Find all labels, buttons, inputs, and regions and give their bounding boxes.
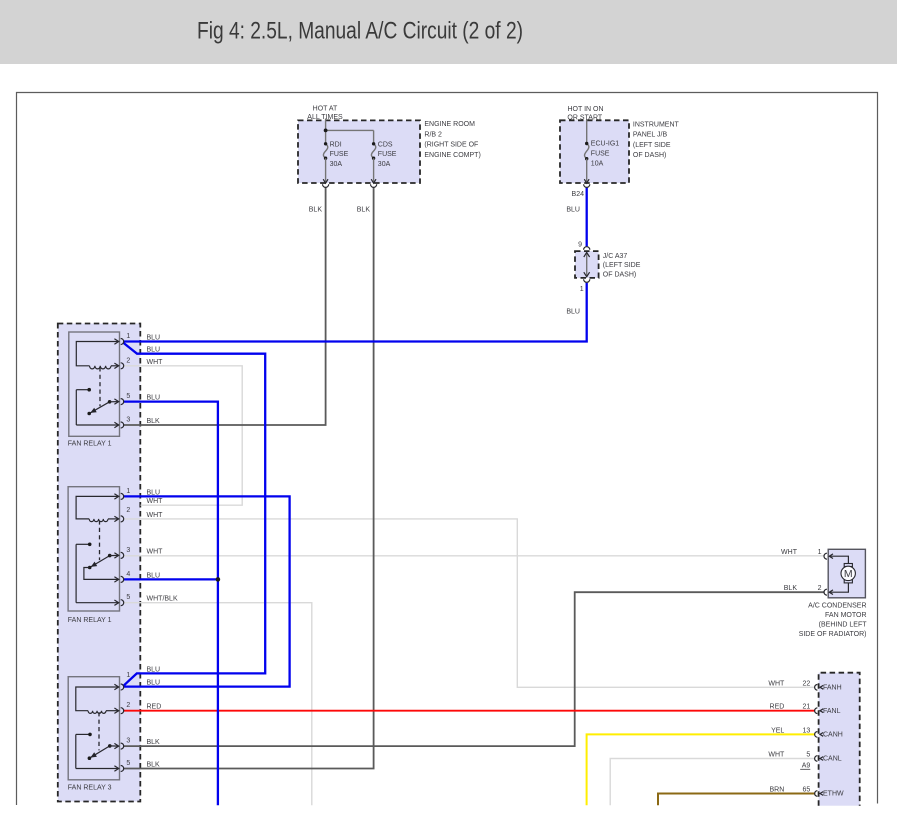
svg-text:ALL TIMES: ALL TIMES bbox=[307, 114, 343, 121]
svg-text:WHT: WHT bbox=[768, 752, 785, 759]
svg-text:OR START: OR START bbox=[567, 114, 602, 121]
svg-text:2: 2 bbox=[126, 507, 130, 514]
svg-text:1: 1 bbox=[126, 488, 130, 495]
svg-text:WHT: WHT bbox=[147, 512, 164, 519]
svg-text:SIDE OF RADIATOR): SIDE OF RADIATOR) bbox=[799, 631, 867, 638]
svg-text:OF DASH): OF DASH) bbox=[603, 272, 636, 279]
svg-text:3: 3 bbox=[126, 738, 130, 745]
svg-text:BLK: BLK bbox=[357, 206, 371, 213]
svg-text:1: 1 bbox=[126, 672, 130, 679]
svg-text:RDI: RDI bbox=[330, 141, 342, 148]
svg-text:5: 5 bbox=[126, 393, 130, 400]
svg-text:FUSE: FUSE bbox=[378, 151, 397, 158]
svg-text:22: 22 bbox=[803, 680, 811, 687]
svg-text:B24: B24 bbox=[572, 191, 585, 198]
svg-text:(LEFT SIDE: (LEFT SIDE bbox=[603, 262, 641, 269]
svg-text:BLK: BLK bbox=[147, 762, 161, 769]
svg-text:2: 2 bbox=[818, 585, 822, 592]
svg-text:WHT: WHT bbox=[147, 548, 164, 555]
svg-text:CDS: CDS bbox=[378, 141, 393, 148]
svg-text:10A: 10A bbox=[591, 161, 604, 168]
svg-text:Fig 4: 2.5L, Manual A/C Circui: Fig 4: 2.5L, Manual A/C Circuit (2 of 2) bbox=[197, 18, 523, 45]
svg-text:21: 21 bbox=[803, 704, 811, 711]
svg-text:BLK: BLK bbox=[147, 418, 161, 425]
svg-text:OF DASH): OF DASH) bbox=[633, 152, 666, 159]
svg-text:BLU: BLU bbox=[147, 395, 161, 402]
svg-text:ENGINE COMPT): ENGINE COMPT) bbox=[424, 152, 480, 159]
svg-text:FAN MOTOR: FAN MOTOR bbox=[825, 612, 866, 619]
svg-text:RED: RED bbox=[770, 704, 785, 711]
svg-text:5: 5 bbox=[126, 594, 130, 601]
svg-text:FANL: FANL bbox=[823, 708, 841, 715]
svg-text:1: 1 bbox=[580, 286, 584, 293]
svg-text:65: 65 bbox=[803, 787, 811, 794]
svg-text:A9: A9 bbox=[802, 763, 811, 770]
svg-text:BLU: BLU bbox=[147, 666, 161, 673]
svg-text:FAN RELAY 1: FAN RELAY 1 bbox=[68, 617, 112, 624]
svg-text:WHT: WHT bbox=[781, 549, 798, 556]
svg-text:ETHW: ETHW bbox=[823, 791, 844, 798]
svg-text:13: 13 bbox=[803, 727, 811, 734]
svg-text:BLU: BLU bbox=[147, 489, 161, 496]
svg-text:2: 2 bbox=[126, 357, 130, 364]
svg-text:CANH: CANH bbox=[823, 732, 843, 739]
svg-text:BLU: BLU bbox=[147, 680, 161, 687]
svg-text:RED: RED bbox=[147, 704, 162, 711]
svg-text:BLU: BLU bbox=[147, 335, 161, 342]
svg-text:BLK: BLK bbox=[784, 585, 798, 592]
svg-text:3: 3 bbox=[126, 547, 130, 554]
svg-text:5: 5 bbox=[126, 760, 130, 767]
svg-text:PANEL J/B: PANEL J/B bbox=[633, 132, 668, 139]
svg-text:ENGINE ROOM: ENGINE ROOM bbox=[424, 121, 475, 128]
svg-text:YEL: YEL bbox=[771, 727, 784, 734]
svg-text:M: M bbox=[844, 568, 853, 580]
svg-text:BLU: BLU bbox=[147, 347, 161, 354]
svg-text:2: 2 bbox=[126, 702, 130, 709]
svg-text:(BEHIND LEFT: (BEHIND LEFT bbox=[819, 622, 868, 629]
svg-text:FUSE: FUSE bbox=[330, 151, 349, 158]
svg-text:BRN: BRN bbox=[770, 787, 785, 794]
svg-text:FANH: FANH bbox=[823, 684, 842, 691]
svg-text:1: 1 bbox=[818, 549, 822, 556]
svg-text:WHT: WHT bbox=[768, 680, 785, 687]
svg-text:(LEFT SIDE: (LEFT SIDE bbox=[633, 142, 671, 149]
svg-text:ECU-IG1: ECU-IG1 bbox=[591, 141, 620, 148]
svg-text:HOT IN ON: HOT IN ON bbox=[567, 106, 603, 113]
svg-text:BLK: BLK bbox=[309, 206, 323, 213]
svg-text:R/B 2: R/B 2 bbox=[424, 131, 442, 138]
svg-text:1: 1 bbox=[126, 333, 130, 340]
svg-text:FAN RELAY 3: FAN RELAY 3 bbox=[68, 785, 112, 792]
svg-text:FAN RELAY 1: FAN RELAY 1 bbox=[68, 440, 112, 447]
svg-text:WHT: WHT bbox=[147, 498, 164, 505]
svg-text:(RIGHT SIDE OF: (RIGHT SIDE OF bbox=[424, 142, 478, 149]
svg-text:WHT: WHT bbox=[147, 359, 164, 366]
svg-text:CANL: CANL bbox=[823, 756, 842, 763]
svg-text:BLU: BLU bbox=[566, 308, 580, 315]
svg-text:J/C A37: J/C A37 bbox=[603, 253, 628, 260]
svg-text:INSTRUMENT: INSTRUMENT bbox=[633, 121, 680, 128]
svg-text:BLK: BLK bbox=[147, 739, 161, 746]
svg-text:4: 4 bbox=[126, 571, 130, 578]
svg-text:30A: 30A bbox=[378, 161, 391, 168]
svg-text:FUSE: FUSE bbox=[591, 151, 610, 158]
svg-text:30A: 30A bbox=[330, 161, 343, 168]
svg-text:A/C CONDENSER: A/C CONDENSER bbox=[808, 603, 866, 610]
svg-text:5: 5 bbox=[806, 752, 810, 759]
svg-text:BLU: BLU bbox=[566, 206, 580, 213]
svg-text:HOT AT: HOT AT bbox=[313, 105, 338, 112]
svg-text:WHT/BLK: WHT/BLK bbox=[147, 596, 178, 603]
svg-text:3: 3 bbox=[126, 417, 130, 424]
svg-text:9: 9 bbox=[578, 242, 582, 249]
svg-text:BLU: BLU bbox=[147, 572, 161, 579]
